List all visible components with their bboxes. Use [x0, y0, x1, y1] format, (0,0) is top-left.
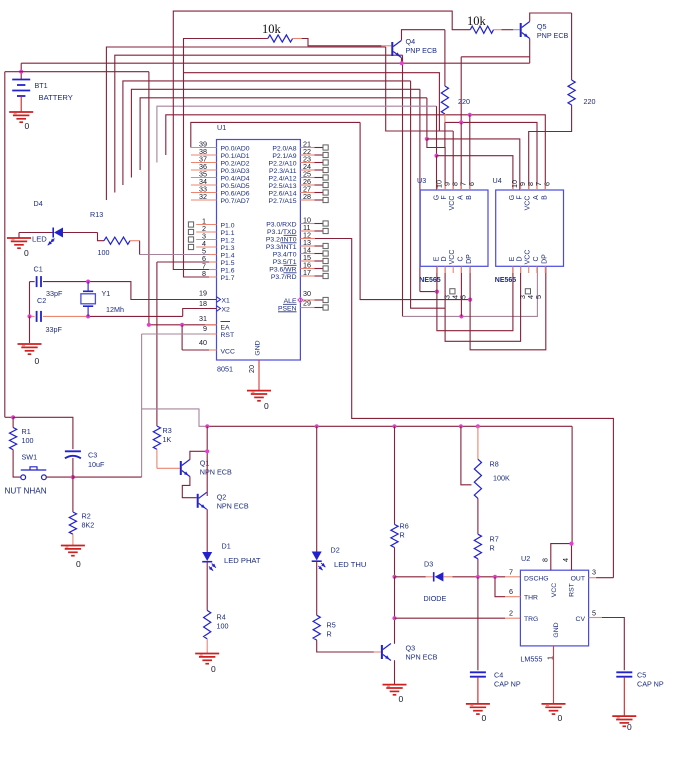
resistor R1 100 — [5, 416, 13, 418]
svg-text:TRG: TRG — [524, 616, 538, 623]
svg-text:P2.6/A14: P2.6/A14 — [269, 190, 297, 197]
svg-text:C: C — [457, 256, 464, 261]
transistor Q2 NPN — [197, 494, 199, 508]
svg-text:BT1: BT1 — [35, 81, 48, 90]
svg-text:R4: R4 — [217, 613, 226, 622]
LED D2 LED THU — [312, 552, 322, 561]
svg-text:P0.7/AD7: P0.7/AD7 — [221, 198, 250, 205]
node F junction — [425, 137, 429, 141]
transistor Q1 NPN — [180, 461, 182, 475]
wire Q5 collector — [530, 13, 572, 21]
svg-text:C1: C1 — [34, 265, 43, 274]
svg-text:0: 0 — [627, 722, 632, 732]
svg-text:PNP ECB: PNP ECB — [406, 46, 438, 55]
node C feed at U3 — [459, 314, 463, 318]
svg-text:10k: 10k — [262, 22, 282, 36]
svg-text:GND: GND — [255, 340, 262, 355]
svg-text:5: 5 — [534, 295, 543, 299]
svg-text:VCC: VCC — [449, 196, 456, 211]
svg-text:P1.0: P1.0 — [221, 222, 235, 229]
svg-text:10k: 10k — [467, 14, 487, 28]
svg-text:P2.2/A10: P2.2/A10 — [269, 160, 297, 167]
svg-text:R8: R8 — [490, 460, 499, 469]
svg-text:Y1: Y1 — [102, 289, 111, 298]
svg-text:20: 20 — [247, 365, 256, 373]
node bus R6 — [392, 424, 396, 428]
LED D4 — [7, 237, 31, 239]
svg-text:P2.0/A8: P2.0/A8 — [272, 145, 296, 152]
svg-text:LED THU: LED THU — [334, 560, 366, 569]
svg-text:C2: C2 — [37, 296, 46, 305]
wire R5 to Q3 base — [317, 640, 374, 652]
svg-text:B: B — [466, 195, 473, 200]
node bus Q1 — [205, 424, 209, 428]
svg-text:P2.1/A9: P2.1/A9 — [272, 153, 296, 160]
wire Q3 emitter — [394, 660, 396, 684]
capacitor C1 33pF — [30, 281, 35, 283]
wire bus to 555 VCC — [571, 426, 573, 543]
svg-text:A: A — [533, 195, 540, 200]
svg-text:0: 0 — [25, 121, 30, 131]
svg-text:LED: LED — [32, 235, 47, 244]
svg-text:P3.2/INT0: P3.2/INT0 — [266, 236, 297, 243]
svg-text:CV: CV — [576, 616, 586, 623]
svg-text:P3.6/WR: P3.6/WR — [269, 266, 296, 273]
wire D4 to R13 — [63, 232, 98, 234]
svg-text:P1.7: P1.7 — [221, 275, 235, 282]
wire A feed drop — [460, 57, 462, 123]
svg-text:12Mh: 12Mh — [106, 305, 124, 314]
wire P0.2 drop to G — [436, 106, 438, 156]
wire Q1 collector — [190, 451, 207, 460]
wire C stub U3 — [460, 266, 462, 316]
svg-text:D3: D3 — [424, 560, 433, 569]
wire DSCHG-THR jog — [495, 577, 505, 597]
svg-text:8051: 8051 — [217, 365, 233, 374]
svg-text:30: 30 — [303, 289, 311, 298]
wire row y72.7 display VCC feed — [184, 73, 440, 131]
svg-text:100: 100 — [22, 436, 34, 445]
display U4 VC square — [525, 289, 530, 294]
wire R8 arm — [461, 426, 472, 485]
svg-text:R: R — [327, 630, 332, 639]
wire F row to U4 — [427, 139, 520, 190]
svg-text:100: 100 — [98, 248, 110, 257]
display U3 VC square — [450, 289, 455, 294]
wire C feed row — [403, 266, 538, 316]
svg-text:PNP ECB: PNP ECB — [537, 31, 569, 40]
wire Q3 collector to TRG — [394, 577, 396, 618]
node Q4 emitter VCC — [400, 61, 404, 65]
svg-text:DSCHG: DSCHG — [524, 576, 549, 583]
svg-text:C4: C4 — [494, 671, 503, 680]
svg-text:SW1: SW1 — [22, 453, 38, 462]
wire R13 to P1.4 — [140, 254, 209, 256]
wire P0.5 row — [123, 81, 411, 185]
wire C2 to X2 — [88, 315, 183, 317]
resistor R11 220 (U4 anode) — [571, 13, 573, 80]
svg-text:100K: 100K — [493, 474, 510, 483]
resistor 10k (Q5 base) — [470, 26, 493, 33]
wire P1.7 stub — [184, 276, 210, 278]
wire P0.4 drop to E row — [419, 89, 421, 291]
node DP feed at U3 — [468, 298, 472, 302]
capacitor C5 CAP NP — [616, 671, 632, 673]
node E at U3 — [435, 290, 439, 294]
svg-text:19: 19 — [199, 289, 207, 298]
wire R7 to C4 — [477, 577, 479, 671]
wire F jog to U3 — [427, 139, 445, 190]
wire P3.2 INT0 to 555 OUT — [315, 238, 352, 240]
svg-text:NE565: NE565 — [495, 277, 517, 284]
node SW1-C3-R2 — [71, 475, 75, 479]
svg-text:P3.7/RD: P3.7/RD — [271, 274, 297, 281]
svg-text:G: G — [509, 195, 516, 200]
svg-text:X2: X2 — [222, 306, 231, 313]
wire A row — [445, 122, 537, 190]
svg-text:U3: U3 — [417, 176, 426, 185]
svg-text:0: 0 — [35, 356, 40, 366]
svg-text:E: E — [433, 256, 440, 261]
svg-text:10uF: 10uF — [88, 460, 105, 469]
resistor R4 100 — [204, 610, 211, 639]
mcu U1 P3 pins right — [300, 223, 314, 225]
wire C1 to X1 — [88, 282, 216, 300]
svg-text:P3.4/T0: P3.4/T0 — [273, 251, 297, 258]
svg-text:P1.2: P1.2 — [221, 237, 235, 244]
wire Q2 emitter to D1 — [206, 509, 208, 552]
wire RST net — [142, 333, 209, 335]
svg-text:7: 7 — [509, 568, 513, 577]
svg-text:P0.5/AD5: P0.5/AD5 — [221, 183, 250, 190]
wire EA feed x148.9 — [148, 72, 150, 325]
svg-text:P1.3: P1.3 — [221, 245, 235, 252]
wire P1.6 route to Q5 base — [173, 11, 470, 269]
svg-text:F: F — [441, 195, 448, 199]
svg-text:R2: R2 — [82, 512, 91, 521]
svg-text:X1: X1 — [222, 297, 231, 304]
svg-text:Q4: Q4 — [406, 37, 416, 46]
wire R13 out — [130, 240, 140, 242]
svg-text:EA: EA — [221, 325, 231, 332]
capacitor C2 33pF — [30, 315, 35, 317]
svg-text:P1.5: P1.5 — [221, 260, 235, 267]
node Q1-Q2 collector — [205, 449, 209, 453]
transistor Q5 PNP — [520, 23, 522, 37]
svg-text:CAP NP: CAP NP — [637, 680, 664, 689]
resistor R8 100K — [477, 426, 479, 459]
svg-text:Q1: Q1 — [200, 459, 210, 468]
svg-text:R: R — [490, 544, 495, 553]
svg-text:0: 0 — [558, 713, 563, 723]
svg-text:6: 6 — [509, 587, 513, 596]
ground 0 (R2) — [61, 545, 85, 547]
wire VCC row y63 battery to Q4/Q5 — [21, 62, 530, 64]
wire DP net U3-U4 — [470, 266, 546, 350]
svg-text:8: 8 — [541, 558, 550, 562]
wire D2 to R5 — [316, 561, 318, 615]
wire C1-C2 left — [29, 282, 31, 317]
resistor R10 220 (U3 anode) — [444, 30, 446, 86]
resistor 10k (Q4 base) — [268, 35, 293, 42]
svg-text:0: 0 — [264, 401, 269, 411]
wire 555 GND — [553, 646, 555, 704]
svg-text:100: 100 — [217, 622, 229, 631]
svg-text:D: D — [517, 256, 524, 261]
svg-text:U4: U4 — [493, 176, 502, 185]
wire bottom bus y426 — [207, 425, 572, 427]
ground 0 (C5) — [612, 715, 636, 717]
wire 555 VCC RST pins — [551, 544, 572, 571]
svg-text:U2: U2 — [521, 554, 530, 563]
svg-text:P3.5/T1: P3.5/T1 — [273, 259, 297, 266]
svg-text:DP: DP — [466, 254, 473, 264]
crystal Y1 12Mh — [87, 282, 89, 291]
resistor R13 100 — [104, 237, 130, 244]
mcu U1 P1 pins left — [196, 224, 216, 226]
ground 0 (555) — [542, 703, 566, 705]
svg-text:BATTERY: BATTERY — [39, 93, 73, 102]
svg-text:0: 0 — [399, 694, 404, 704]
svg-text:CAP NP: CAP NP — [494, 680, 521, 689]
wire P1.5 to R3 — [157, 261, 209, 263]
svg-text:2: 2 — [509, 609, 513, 618]
svg-text:R13: R13 — [90, 210, 103, 219]
LED D1 LED PHAT — [202, 552, 212, 561]
svg-text:OUT: OUT — [571, 576, 585, 583]
wire bus to D2 — [316, 426, 318, 551]
svg-text:28: 28 — [303, 192, 311, 201]
svg-text:4: 4 — [561, 558, 570, 562]
svg-text:D1: D1 — [222, 542, 231, 551]
resistor R5 R — [313, 615, 320, 640]
node G junction — [434, 154, 438, 158]
transistor Q3 NPN — [381, 645, 383, 659]
wire Q4 collector — [402, 30, 445, 41]
svg-text:R3: R3 — [163, 426, 172, 435]
svg-text:P1.6: P1.6 — [221, 267, 235, 274]
svg-text:P0.2/AD2: P0.2/AD2 — [221, 160, 250, 167]
svg-text:5: 5 — [459, 295, 468, 299]
svg-text:U1: U1 — [217, 123, 226, 132]
transistor Q4 PNP — [391, 42, 393, 56]
svg-text:R1: R1 — [22, 427, 31, 436]
svg-text:P1.1: P1.1 — [221, 230, 235, 237]
svg-text:32: 32 — [199, 192, 207, 201]
svg-text:Q5: Q5 — [537, 22, 547, 31]
wire Q3 collector — [394, 618, 396, 644]
display U4 NE565 box — [496, 190, 564, 266]
svg-text:THR: THR — [524, 595, 538, 602]
wire 220 to A row — [444, 114, 446, 122]
svg-text:NUT NHAN: NUT NHAN — [5, 487, 47, 496]
node R7 DSCHG — [476, 575, 480, 579]
ground 0 (U1) — [247, 390, 271, 392]
wire 220 to U4 VCC — [529, 105, 572, 190]
wire P0.3 drop to F — [426, 98, 428, 139]
wire P1.7 route to 10k — [184, 39, 268, 278]
resistor R6 R — [394, 426, 396, 524]
node DSCHG THR link — [493, 575, 497, 579]
svg-text:9: 9 — [203, 324, 207, 333]
svg-text:R: R — [400, 531, 405, 540]
display U4 bottom pin stubs — [512, 266, 514, 273]
timer U2 LM555 box — [520, 570, 588, 646]
svg-text:P0.0/AD0: P0.0/AD0 — [221, 145, 250, 152]
wire Q1 emitter to Q2 base — [182, 476, 196, 497]
mcu U1 X1 X2 pins — [209, 299, 217, 301]
wire P0.1 row B net — [166, 115, 546, 190]
mcu U1 EA RST VCC pins — [205, 324, 217, 326]
svg-text:P0.3/AD3: P0.3/AD3 — [221, 168, 250, 175]
battery BT1 — [20, 72, 22, 80]
svg-text:C: C — [533, 256, 540, 261]
svg-text:D2: D2 — [331, 546, 340, 555]
svg-text:NPN ECB: NPN ECB — [406, 653, 438, 662]
svg-text:6: 6 — [543, 182, 552, 186]
svg-text:P0.4/AD4: P0.4/AD4 — [221, 175, 250, 182]
mcu U1 ALE PSEN pins — [300, 299, 314, 301]
wire E net U3-U4 — [437, 266, 513, 330]
svg-text:220: 220 — [584, 97, 596, 106]
wire reset node to RST — [73, 476, 142, 478]
wire P0.6 row — [115, 55, 403, 192]
svg-text:P3.3/INT1: P3.3/INT1 — [266, 244, 297, 251]
svg-text:RST: RST — [221, 332, 235, 339]
wire Q1 main vertical — [206, 426, 208, 496]
svg-text:NPN ECB: NPN ECB — [200, 468, 232, 477]
node Y1 bottom — [86, 314, 90, 318]
svg-text:0: 0 — [211, 664, 216, 674]
display U3 bottom pin stubs — [436, 266, 438, 273]
wire DSCHG row — [395, 576, 426, 578]
wire P0.4 row — [131, 89, 420, 177]
svg-text:5: 5 — [592, 609, 596, 618]
svg-text:1K: 1K — [163, 435, 172, 444]
wire RST branch to bus — [142, 409, 208, 426]
wire U3 VCC stub — [452, 131, 454, 190]
diode D3 DIODE — [426, 576, 433, 578]
wire TRG row — [395, 617, 506, 619]
wire EA-VCC40 link — [181, 325, 183, 350]
node Y1 top — [86, 280, 90, 284]
wire P0.2 row — [157, 106, 437, 162]
svg-text:P2.4/A12: P2.4/A12 — [269, 175, 297, 182]
ground 0 (Q3) — [383, 684, 407, 686]
ground 0 (C4) — [466, 703, 490, 705]
svg-text:18: 18 — [199, 299, 207, 308]
svg-text:E: E — [509, 256, 516, 261]
svg-text:33pF: 33pF — [46, 289, 63, 298]
svg-text:VCC: VCC — [525, 250, 532, 265]
mcu U1 P0 pins left — [191, 147, 217, 149]
svg-text:P2.3/A11: P2.3/A11 — [269, 168, 297, 175]
svg-text:VCC: VCC — [551, 583, 558, 597]
wire G row to U4 — [437, 156, 513, 190]
ground 0 (battery) — [9, 111, 33, 113]
ground 0 (C1 C2) — [18, 343, 42, 345]
svg-text:D4: D4 — [34, 199, 43, 208]
node TRG row — [392, 616, 396, 620]
wire P0.7 row — [106, 47, 385, 200]
node bus R8b — [476, 424, 480, 428]
wire battery row y71.7 to EA drop — [5, 71, 149, 73]
wire P0.0 drop to DP feed — [360, 122, 470, 299]
svg-text:8K2: 8K2 — [82, 521, 95, 530]
wire 220 leg to F step — [444, 122, 446, 147]
svg-text:0: 0 — [24, 248, 29, 258]
svg-text:R5: R5 — [327, 621, 336, 630]
node battery junction — [19, 70, 23, 74]
svg-text:29: 29 — [303, 299, 311, 308]
svg-text:P0.6/AD6: P0.6/AD6 — [221, 190, 250, 197]
svg-text:0: 0 — [482, 713, 487, 723]
resistor R3 1K — [153, 426, 160, 449]
capacitor C4 CAP NP — [470, 671, 486, 673]
svg-text:P2.5/A13: P2.5/A13 — [269, 183, 297, 190]
svg-text:NE565: NE565 — [419, 277, 441, 284]
node B at U3 — [468, 113, 472, 117]
wire P0.0 row — [191, 122, 360, 147]
svg-text:DIODE: DIODE — [424, 594, 447, 603]
mcu U1 8051 box — [217, 140, 301, 361]
wire Q4 emitter — [401, 58, 403, 63]
svg-text:C3: C3 — [88, 451, 97, 460]
wire P0.3 row — [140, 98, 427, 170]
svg-text:31: 31 — [199, 314, 207, 323]
wire P0.7 drop to display VCC row — [386, 47, 454, 131]
wire Q5 collector row — [461, 56, 530, 58]
svg-text:R6: R6 — [400, 522, 409, 531]
svg-text:RST: RST — [569, 583, 576, 597]
svg-text:40: 40 — [199, 338, 207, 347]
svg-text:DP: DP — [541, 254, 548, 264]
wire 10k to Q5 base — [494, 29, 502, 31]
resistor R7 R — [477, 498, 479, 534]
node A at U3 — [459, 120, 463, 124]
wire P0.6 drop to C feed — [402, 55, 404, 316]
capacitor C3 10uF — [13, 417, 73, 449]
wire EA row — [149, 324, 217, 326]
wire E feed row — [420, 291, 437, 293]
svg-text:P3.1/TXD: P3.1/TXD — [267, 229, 297, 236]
svg-text:17: 17 — [303, 268, 311, 277]
mcu U1 P2 pins right — [300, 147, 314, 149]
svg-text:6: 6 — [467, 182, 476, 186]
svg-text:P0.1/AD1: P0.1/AD1 — [221, 153, 250, 160]
svg-text:VCC: VCC — [525, 196, 532, 211]
svg-text:Q3: Q3 — [406, 644, 416, 653]
wire G stub U3 — [436, 156, 438, 190]
svg-text:GND: GND — [553, 622, 560, 637]
svg-text:P3.0/RXD: P3.0/RXD — [266, 221, 296, 228]
svg-text:LM555: LM555 — [520, 655, 542, 664]
svg-text:LED PHAT: LED PHAT — [224, 556, 261, 565]
svg-text:D: D — [441, 256, 448, 261]
ground 0 (R4) — [195, 653, 219, 655]
node bus D2 — [315, 424, 319, 428]
svg-text:3: 3 — [592, 568, 596, 577]
svg-text:220: 220 — [458, 97, 470, 106]
node DSCHG row left — [392, 575, 396, 579]
svg-text:P2.7/A15: P2.7/A15 — [269, 198, 297, 205]
svg-text:P1.4: P1.4 — [221, 252, 235, 259]
svg-text:G: G — [433, 195, 440, 200]
svg-text:R7: R7 — [490, 535, 499, 544]
wire D net U3-U4 — [445, 266, 520, 341]
wire D1 to R4 — [206, 562, 208, 611]
wire R3 to Q1 base — [157, 467, 180, 469]
